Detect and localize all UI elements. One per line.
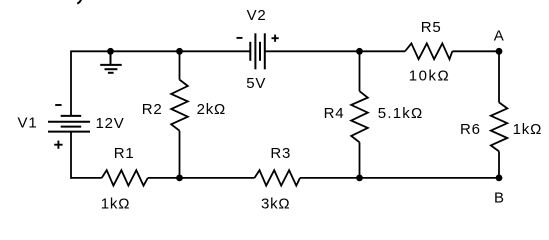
wire: bottom rail, R3 right end to node B [300,177,499,179]
svg-text:2kΩ: 2kΩ [197,101,226,118]
svg-text:A: A [494,27,505,44]
svg-text:5V: 5V [246,75,266,92]
svg-text:R6: R6 [460,121,481,138]
resistor R4 [351,91,368,142]
svg-text:V1: V1 [18,115,38,132]
V1 negative polarity mark [55,104,61,106]
svg-text:R4: R4 [324,105,345,122]
svg-text:R1: R1 [114,145,135,162]
wire: top rail, V2 positive plate to R5 left end [265,50,405,52]
wire: R4 bottom to bottom rail [359,142,361,178]
V2 positive polarity mark [272,35,279,42]
resistor R2 [171,80,188,131]
junction: R4 top on top rail [356,48,363,55]
svg-text:5.1kΩ: 5.1kΩ [378,105,424,122]
svg-text:R5: R5 [421,19,442,36]
wire: R6 branch, node A to R6 top [498,51,500,102]
svg-text:10kΩ: 10kΩ [409,68,450,85]
wire: left branch, top rail down to V1 negative plate [70,51,72,116]
junction: R4 bottom on bottom rail [356,175,363,182]
wire: R6 bottom to node B [498,151,500,178]
node B junction dot [496,175,503,182]
resistor R5 [405,43,452,59]
wire: top rail, left corner to V2 negative plate [71,50,250,52]
wire: top rail, R5 right end to node A [452,50,499,52]
resistor R3 [255,170,301,185]
junction: R2 top on top rail [176,48,183,55]
svg-text:1kΩ: 1kΩ [513,121,542,138]
wire: R2 branch, top rail to R2 top [179,51,181,79]
svg-text:12V: 12V [95,115,124,132]
svg-text:R2: R2 [142,101,163,118]
resistor R6 [491,102,508,151]
wire: R2 bottom to bottom rail [179,131,181,178]
svg-text:3kΩ: 3kΩ [261,196,290,213]
wire: R4 branch, top rail to R4 top [359,51,361,91]
V2 negative polarity mark [237,37,243,39]
wire: bottom rail, left corner to R1 left end [71,177,102,179]
stray figure-label fragment (cut-off parenthesis tail, top edge) [77,0,81,4]
wire: bottom rail, R1 right end to R3 left end [148,177,255,179]
svg-text:R3: R3 [270,145,291,162]
ground symbol [100,51,122,73]
node A junction dot [496,48,503,55]
battery V1 (12V) [48,116,90,132]
junction: R2 bottom on bottom rail [176,175,183,182]
svg-text:1kΩ: 1kΩ [101,196,130,213]
battery V2 (5V) [250,33,264,69]
V1 positive polarity mark [54,141,62,149]
wire: left branch, V1 positive plate down to bottom rail [70,132,72,179]
svg-text:V2: V2 [247,7,267,24]
resistor R1 [102,170,148,185]
svg-text:B: B [494,189,505,206]
junction: ground tap on top rail [107,48,114,55]
